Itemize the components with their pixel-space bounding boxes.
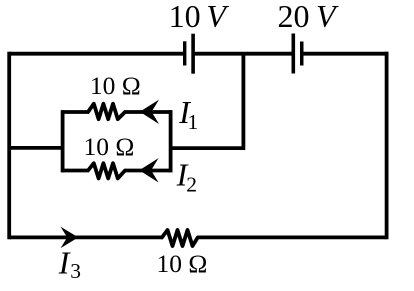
wire left side bbox=[7, 52, 11, 240]
svg-text:V: V bbox=[316, 0, 339, 34]
resistor R1 zigzag bbox=[88, 104, 126, 120]
svg-text:3: 3 bbox=[70, 259, 81, 283]
wire between batteries bbox=[193, 52, 293, 56]
resistor R3 zigzag bbox=[161, 230, 199, 246]
svg-text:1: 1 bbox=[188, 110, 199, 134]
arrow I3 current direction bbox=[61, 227, 79, 248]
svg-text:2: 2 bbox=[186, 173, 197, 197]
wire top branch left bbox=[63, 110, 89, 114]
battery B1 10V short plate bbox=[183, 41, 186, 65]
svg-text:10 Ω: 10 Ω bbox=[84, 132, 135, 161]
svg-text:V: V bbox=[206, 0, 229, 34]
wire right side bbox=[385, 52, 389, 240]
battery B1 10V long plate bbox=[191, 34, 195, 74]
wire bottom branch left bbox=[63, 169, 89, 173]
svg-text:I: I bbox=[58, 244, 71, 280]
node A junction vertical and right stub wire bbox=[171, 54, 244, 148]
wire top-left segment bbox=[9, 52, 185, 56]
wire box right edge bbox=[169, 110, 173, 172]
arrow I2 current direction bbox=[139, 158, 158, 182]
wire top branch right bbox=[125, 110, 171, 114]
wire bottom left bbox=[9, 235, 163, 239]
svg-text:20: 20 bbox=[278, 0, 310, 34]
wire box left edge bbox=[61, 110, 65, 172]
svg-text:10: 10 bbox=[169, 0, 201, 34]
battery B2 20V short plate bbox=[300, 42, 304, 66]
wire bottom branch right bbox=[125, 169, 171, 173]
wire left stub bbox=[9, 146, 62, 150]
svg-text:10 Ω: 10 Ω bbox=[157, 249, 208, 278]
resistor R2 zigzag bbox=[88, 163, 126, 178]
svg-text:10 Ω: 10 Ω bbox=[90, 71, 141, 100]
wire top-right segment bbox=[302, 52, 389, 56]
wire bottom right bbox=[197, 235, 387, 239]
arrow I1 current direction bbox=[140, 100, 159, 124]
battery B2 20V long plate bbox=[292, 34, 296, 74]
